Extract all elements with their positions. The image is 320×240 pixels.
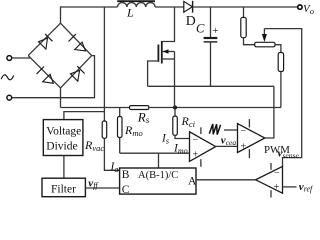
block Voltage Divide — [43, 120, 83, 156]
potentiometer wiper arrow — [262, 29, 267, 42]
svg-text:L: L — [126, 6, 134, 20]
inductor L core bar — [117, 0, 155, 2]
block multiplier A(B-1)/C — [120, 168, 196, 194]
svg-text:+: + — [241, 142, 247, 153]
wire PWM output to gate line — [265, 86, 274, 138]
AC source sine symbol — [1, 75, 14, 80]
svg-text:−: − — [193, 135, 199, 146]
wire pot to R2 — [275, 45, 281, 53]
inductor L coil — [118, 3, 156, 7]
resistor Rmo — [118, 108, 123, 154]
gate lead — [148, 61, 159, 86]
ramp sawtooth symbol — [209, 124, 220, 135]
svg-text:−: − — [274, 168, 280, 179]
wire Rvac to multiplier B input — [104, 138, 119, 170]
wire vcea — [216, 145, 238, 147]
diode BR3 bottom-left — [28, 56, 60, 88]
svg-text:C: C — [122, 184, 130, 196]
svg-text:+: + — [212, 25, 218, 37]
svg-text:D: D — [186, 13, 196, 28]
wire gate drive line — [148, 85, 274, 87]
wire AC lower return to bridge right vertex — [12, 56, 95, 98]
terminal AC upper — [7, 56, 12, 61]
svg-text:−: − — [241, 126, 247, 137]
svg-text:C: C — [196, 22, 205, 36]
svg-text:+: + — [193, 150, 199, 161]
svg-text:Divide: Divide — [46, 140, 77, 152]
source down wire — [174, 52, 176, 108]
wire vff to multiplier C input — [85, 187, 119, 189]
svg-text:+: + — [274, 182, 280, 193]
wire bridge bottom vertex down — [60, 88, 62, 108]
terminal Vo — [298, 5, 302, 9]
resistor R1 output divider top — [241, 7, 255, 45]
op-amp U1 current error amp — [190, 127, 216, 167]
body arrow — [163, 51, 175, 53]
svg-text:B: B — [122, 169, 130, 181]
wire ground rail right — [149, 107, 281, 109]
potentiometer body — [255, 42, 275, 47]
wire VD to Filter — [63, 156, 65, 179]
op-amp U3 voltage error amp — [256, 163, 283, 198]
wire Imo summing line — [120, 152, 190, 154]
block Filter — [42, 178, 85, 197]
transistor Q MOSFET — [148, 7, 175, 108]
wire AC upper to bridge left vertex — [12, 57, 31, 59]
svg-text:A(B-1)/C: A(B-1)/C — [138, 170, 178, 181]
wire top rail left segment — [61, 7, 118, 23]
svg-text:A: A — [188, 176, 197, 188]
svg-text:Voltage: Voltage — [46, 125, 81, 137]
drain lead — [162, 7, 175, 42]
resistor Rvac — [102, 121, 107, 138]
gate bar — [157, 45, 159, 62]
diode BR2 top-right — [61, 23, 92, 55]
wire R2 to ground rail — [280, 72, 282, 108]
resistor R2 output divider bottom — [278, 53, 283, 72]
wire rail L to diode D — [155, 6, 184, 8]
wire ramp to PWM input — [224, 129, 238, 131]
wire rectified sense drop — [103, 7, 105, 121]
svg-text:Filter: Filter — [51, 184, 76, 196]
terminal AC lower — [7, 95, 12, 100]
wire rail D to Vo — [193, 6, 298, 8]
diode BR1 top-left — [28, 23, 60, 55]
diode BR4 bottom-right — [61, 56, 92, 88]
wire ground rail left — [61, 107, 130, 109]
wire voltage divider feed — [64, 112, 105, 120]
bridge rectifier diamond — [28, 23, 91, 88]
junction dot — [173, 105, 177, 109]
channel bar — [161, 41, 163, 64]
wire multiplier A input from voltage amp — [196, 179, 256, 181]
diode D — [184, 1, 193, 13]
capacitor C — [204, 7, 218, 86]
wire vref input — [283, 186, 297, 188]
resistor Rs — [130, 106, 149, 110]
resistor Rci — [173, 108, 190, 139]
wire multiplier output stub — [158, 153, 160, 168]
wire wiper feedback — [264, 29, 301, 167]
source lead — [162, 58, 175, 60]
op-amp U2 PWM comparator — [238, 119, 265, 158]
